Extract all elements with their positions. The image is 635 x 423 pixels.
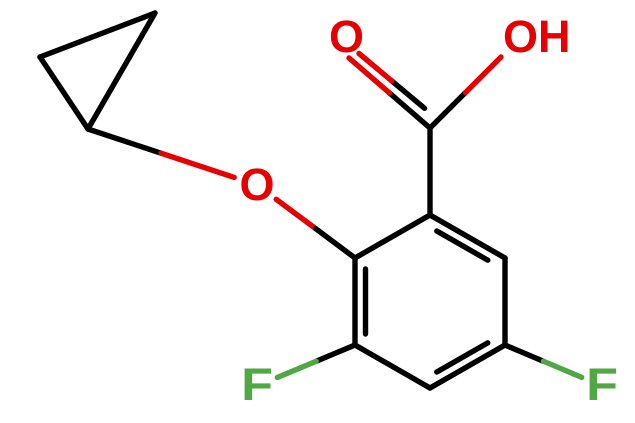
carbonyl double bond inner line (black half) bbox=[392, 81, 425, 108]
bond ring C3 to left F (green half near F) bbox=[277, 361, 316, 377]
cyclopropyl ring C7-C8-C9 bbox=[40, 13, 155, 129]
bond ring C3 to left F (black half) bbox=[316, 345, 355, 361]
svg-text:O: O bbox=[239, 159, 274, 210]
carbonyl double bond main line (red half near O) bbox=[349, 58, 390, 93]
aromatic inner line C5-C4 bbox=[437, 343, 488, 372]
bond ring C5 to right F (black half) bbox=[505, 345, 543, 361]
bond ring C5 to right F (green half near F) bbox=[543, 361, 581, 377]
aromatic inner line C3-C2 bbox=[363, 269, 368, 334]
svg-text:F: F bbox=[586, 360, 618, 410]
svg-text:O: O bbox=[329, 11, 364, 62]
bond C9 to ester O (red half near O) bbox=[161, 153, 234, 177]
bond ester O to ring C2 (black half) bbox=[316, 229, 355, 258]
bond ring C1 to carboxyl C bbox=[427, 128, 432, 215]
bond carboxyl C to hydroxyl O (red half near O) bbox=[466, 57, 502, 93]
benzene ring bbox=[355, 215, 505, 388]
carbonyl double bond main line (black half) bbox=[390, 93, 431, 128]
svg-text:F: F bbox=[241, 360, 273, 410]
carbonyl double bond inner line (red half near O) bbox=[359, 54, 392, 81]
svg-text:OH: OH bbox=[503, 11, 571, 62]
aromatic inner line C1-C6 bbox=[437, 231, 488, 260]
bond C9 to ester O (black half) bbox=[88, 129, 161, 153]
bond carboxyl C to hydroxyl O (black half) bbox=[430, 93, 466, 129]
bond ester O to ring C2 (red half near O) bbox=[276, 199, 315, 228]
